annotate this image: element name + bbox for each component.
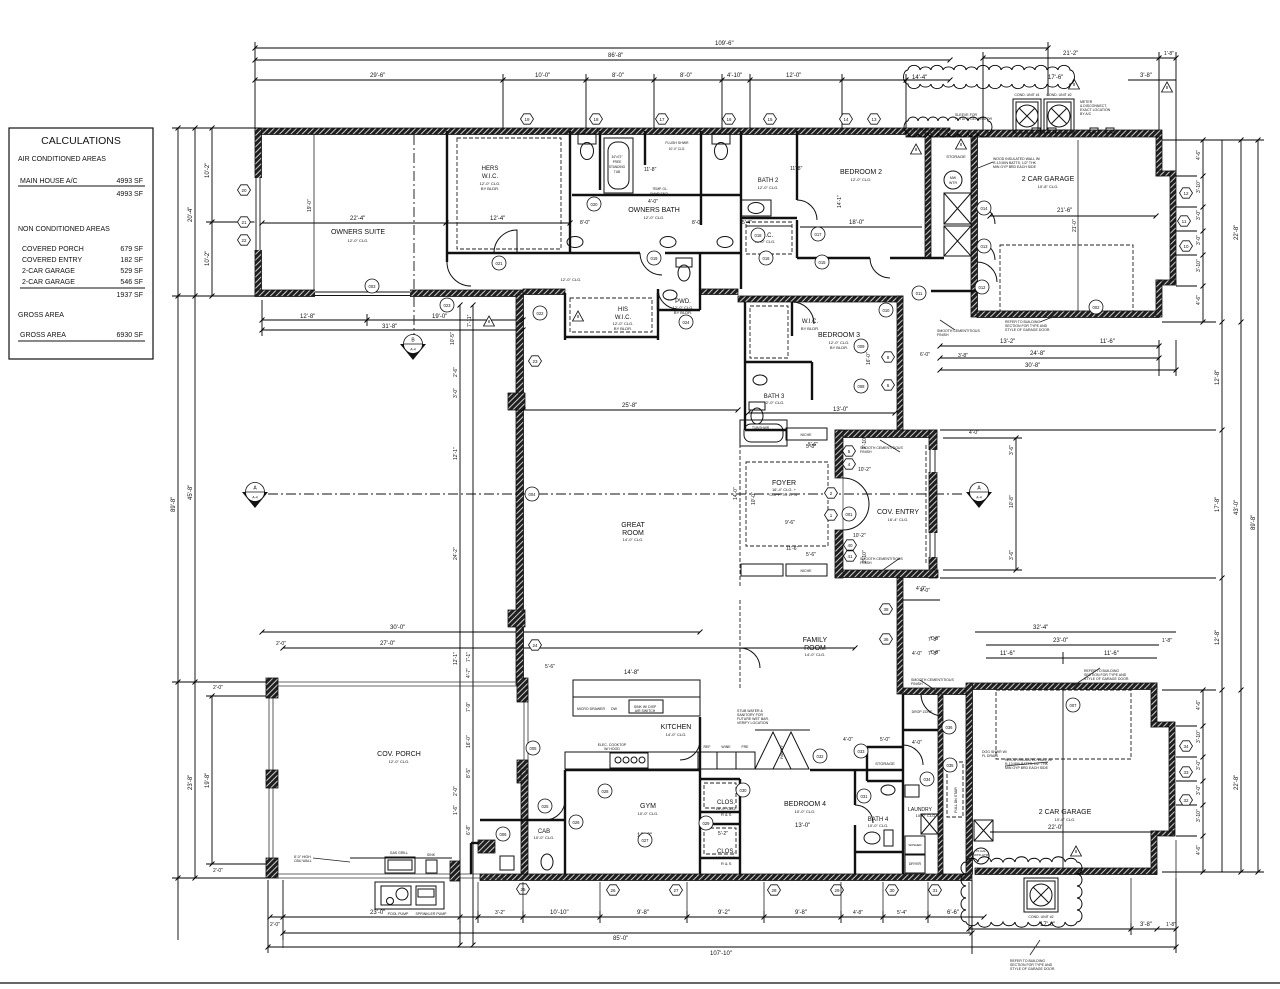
great room wall column 1	[508, 393, 525, 410]
svg-text:14'-0": 14'-0"	[733, 487, 739, 500]
pull down stair dashed	[947, 762, 963, 817]
door arcs	[447, 200, 997, 823]
svg-text:29: 29	[834, 888, 840, 893]
svg-text:22'-0": 22'-0"	[1048, 825, 1063, 831]
svg-text:13'-0": 13'-0"	[833, 407, 848, 413]
svg-text:29'-6": 29'-6"	[370, 73, 385, 79]
svg-text:22'-4": 22'-4"	[350, 216, 365, 222]
keynote hexagon 24	[529, 640, 542, 650]
svg-text:4'-6": 4'-6"	[1196, 150, 1202, 160]
svg-text:30: 30	[889, 888, 895, 893]
storage corridor south walls	[925, 257, 944, 259]
svg-text:27: 27	[673, 888, 679, 893]
svg-text:14'-0" CLG.: 14'-0" CLG.	[623, 537, 644, 542]
svg-text:026: 026	[573, 820, 581, 825]
keynote hexagon 15	[764, 114, 777, 124]
keynote hexagon 6	[882, 380, 895, 390]
left dim 10'-2" pair	[205, 128, 255, 296]
keynote hexagon 16	[723, 114, 736, 124]
svg-text:15: 15	[767, 117, 773, 122]
keynote hexagon 19	[521, 114, 534, 124]
svg-text:12'-8": 12'-8"	[1215, 370, 1221, 385]
hall south wall	[523, 289, 565, 295]
niche top	[786, 428, 827, 440]
svg-text:FLUSH SHWR: FLUSH SHWR	[665, 141, 689, 145]
centerline A-A	[268, 493, 962, 495]
svg-text:32: 32	[1183, 798, 1189, 803]
garage1 east jog bottom	[1156, 280, 1176, 285]
svg-text:2'-10": 2'-10"	[862, 436, 868, 449]
svg-text:OWNERS SUITE: OWNERS SUITE	[331, 229, 385, 236]
svg-text:34: 34	[1183, 744, 1189, 749]
svg-text:NICHE: NICHE	[801, 569, 813, 573]
svg-text:010: 010	[883, 308, 891, 313]
svg-text:12'-8": 12'-8"	[300, 314, 315, 320]
svg-text:12'-0" CLG.: 12'-0" CLG.	[644, 215, 665, 220]
north wall	[255, 128, 950, 135]
keynote hexagon 25	[517, 884, 530, 894]
left dim 19'-8" porch	[205, 685, 270, 874]
svg-text:FAMILY: FAMILY	[803, 637, 828, 644]
svg-text:10'-0" CLG.: 10'-0" CLG.	[868, 823, 889, 828]
garage1 east wall lower	[1156, 280, 1162, 317]
great room west wall	[516, 295, 524, 685]
svg-text:W.I.C.: W.I.C.	[802, 319, 819, 325]
svg-text:27'-0": 27'-0"	[380, 641, 395, 647]
door-window tag 026	[569, 815, 583, 829]
svg-text:11: 11	[1182, 219, 1187, 224]
garage2 west wall	[966, 683, 973, 874]
keynote hexagon 27	[670, 885, 683, 895]
svg-text:COVERED ENTRY: COVERED ENTRY	[22, 257, 82, 264]
svg-text:PANTRY: PANTRY	[780, 744, 784, 759]
keynote hexagon 5	[843, 446, 856, 456]
cond unit bottom	[1024, 878, 1058, 912]
svg-text:10'-0" CLG.: 10'-0" CLG.	[638, 811, 659, 816]
svg-text:BEDROOM 4: BEDROOM 4	[784, 801, 826, 808]
garage1 south wall	[977, 311, 1159, 318]
svg-text:14'-4": 14'-4"	[912, 75, 927, 81]
svg-text:107'-10": 107'-10"	[710, 951, 732, 957]
svg-text:025: 025	[542, 804, 550, 809]
door-window tag 012	[975, 280, 989, 294]
note leader lines	[313, 162, 1100, 955]
svg-text:3'-0": 3'-0"	[1196, 785, 1202, 795]
bedroom2 west wall	[796, 131, 798, 200]
svg-text:STYLE OF GARAGE DOOR.: STYLE OF GARAGE DOOR.	[1005, 328, 1050, 332]
svg-text:WTR-HTR: WTR-HTR	[974, 853, 989, 857]
gym west wall	[564, 770, 566, 874]
svg-text:BY BLDR.: BY BLDR.	[830, 345, 848, 350]
svg-text:34"x72": 34"x72"	[612, 155, 623, 159]
svg-text:SPRINKLER PUMP: SPRINKLER PUMP	[416, 912, 448, 916]
keynote hexagon 2	[825, 488, 838, 498]
garage2 north wall	[969, 683, 1157, 690]
svg-text:011: 011	[916, 291, 923, 296]
garage2 east jog top	[1151, 722, 1174, 727]
svg-text:182 SF: 182 SF	[120, 257, 143, 264]
family west dashed	[739, 600, 741, 688]
svg-text:022: 022	[537, 311, 545, 316]
svg-text:KITCHEN: KITCHEN	[661, 724, 692, 731]
svg-text:5'-0": 5'-0"	[880, 737, 890, 743]
svg-text:12'-0" CLG.: 12'-0" CLG.	[389, 759, 410, 764]
svg-text:HIS: HIS	[618, 307, 628, 313]
svg-text:A-4: A-4	[410, 348, 416, 352]
svg-text:POOL PUMP: POOL PUMP	[388, 912, 409, 916]
svg-text:529 SF: 529 SF	[120, 268, 143, 275]
svg-text:4'-6": 4'-6"	[1196, 295, 1202, 305]
keynote hexagon 23	[529, 356, 542, 366]
svg-text:STANDING: STANDING	[609, 165, 626, 169]
svg-text:31'-8": 31'-8"	[382, 324, 397, 330]
svg-text:13'-0": 13'-0"	[795, 823, 810, 829]
svg-text:027: 027	[642, 838, 650, 843]
warning triangle	[1071, 846, 1082, 856]
door-window tag 001	[842, 507, 856, 521]
svg-text:GYM: GYM	[640, 803, 656, 810]
dimension tick marks	[176, 46, 1261, 950]
west wall owners wing	[255, 128, 262, 296]
svg-text:2 CAR GARAGE: 2 CAR GARAGE	[1022, 176, 1075, 183]
svg-text:FINISH: FINISH	[860, 450, 872, 454]
bath4 toilet	[864, 785, 895, 846]
svg-text:030: 030	[740, 788, 748, 793]
svg-text:19'-0": 19'-0"	[307, 199, 313, 212]
svg-text:DROP ZONE: DROP ZONE	[912, 710, 933, 714]
svg-text:8'-5": 8'-5"	[466, 768, 472, 778]
svg-text:GROSS AREA: GROSS AREA	[18, 312, 64, 319]
family room right dims	[903, 586, 940, 656]
svg-text:31: 31	[932, 888, 938, 893]
cov entry north wall	[835, 430, 937, 438]
garage2 center line	[1062, 690, 1064, 868]
svg-text:11'-6": 11'-6"	[1000, 651, 1015, 657]
laundry east wall	[938, 694, 943, 874]
svg-text:12'-0" CLG.: 12'-0" CLG.	[758, 185, 779, 190]
svg-text:4'-10": 4'-10"	[727, 73, 742, 79]
warning triangle	[1069, 79, 1080, 89]
svg-text:24: 24	[532, 643, 538, 648]
svg-text:4'-8": 4'-8"	[853, 910, 863, 916]
svg-text:4'-0": 4'-0"	[843, 737, 853, 743]
porch column ne	[517, 678, 528, 702]
svg-text:9'-8": 9'-8"	[795, 910, 807, 916]
room labels	[294, 93, 1129, 971]
door-window tag 003	[365, 279, 379, 293]
svg-text:COFF. TO 17'-4": COFF. TO 17'-4"	[769, 492, 799, 497]
svg-text:14'-0" CLG.: 14'-0" CLG.	[805, 652, 826, 657]
svg-text:7'-1": 7'-1"	[466, 652, 472, 662]
kitchen counter row	[565, 752, 755, 769]
door-window tag 027	[638, 833, 652, 847]
mech circle	[944, 171, 962, 189]
keynote hexagon 26	[607, 885, 620, 895]
keynote hexagon 33	[1180, 767, 1193, 777]
svg-text:86'-8": 86'-8"	[608, 53, 623, 59]
garage2 east jog bottom	[1151, 831, 1174, 836]
svg-text:32'-4": 32'-4"	[1033, 625, 1048, 631]
door-window tag 017	[811, 227, 825, 241]
svg-text:22: 22	[241, 238, 247, 243]
svg-text:016: 016	[763, 256, 771, 261]
door-window tag 022	[533, 306, 547, 320]
pwd walls	[658, 253, 700, 310]
right dims 22'-8 43'-0 22'-8	[1234, 140, 1241, 872]
cov entry west wall upper	[835, 430, 843, 478]
storage room walls	[810, 747, 903, 781]
svg-text:8'-0": 8'-0"	[580, 220, 590, 226]
svg-text:7'-8": 7'-8"	[928, 637, 938, 643]
svg-text:109'-6": 109'-6"	[715, 41, 734, 47]
svg-text:1'-8": 1'-8"	[1164, 51, 1174, 57]
bottom tick extensions	[283, 840, 1176, 948]
garage1 west wall	[971, 133, 978, 317]
svg-text:STORAGE: STORAGE	[875, 761, 895, 766]
door-window tag 018	[751, 228, 765, 242]
svg-text:25'-8": 25'-8"	[622, 403, 637, 409]
keynote hexagon 13	[868, 114, 881, 124]
garage2 east wall lower	[1151, 831, 1157, 874]
keynote hexagon 22	[238, 235, 251, 245]
svg-text:5'-6": 5'-6"	[806, 552, 816, 558]
sheet border	[0, 982, 1280, 984]
svg-text:CALCULATIONS: CALCULATIONS	[41, 135, 121, 147]
family-garage2 wall	[903, 688, 972, 695]
door-window tag 002	[1089, 300, 1103, 314]
svg-text:26: 26	[610, 888, 616, 893]
foyer west dashed	[739, 444, 741, 588]
ref wine fre boxes	[698, 752, 755, 769]
revision cloud top right	[904, 65, 1075, 88]
svg-text:012: 012	[979, 285, 987, 290]
svg-text:6'-6": 6'-6"	[947, 910, 959, 916]
svg-text:10'-0": 10'-0"	[535, 73, 550, 79]
svg-text:41: 41	[847, 554, 853, 559]
svg-text:WINE: WINE	[721, 745, 731, 749]
pool pump equipment	[375, 882, 444, 909]
svg-text:3'-0": 3'-0"	[453, 388, 459, 398]
svg-text:018: 018	[755, 233, 763, 238]
svg-text:004: 004	[529, 492, 537, 497]
garage1 door dashed	[1000, 245, 1133, 311]
warning triangle	[573, 311, 584, 321]
svg-text:3'-10": 3'-10"	[1196, 259, 1202, 272]
svg-text:2-CAR GARAGE: 2-CAR GARAGE	[22, 279, 75, 286]
garage1 east outer wall	[1170, 171, 1176, 285]
niche bottom	[786, 564, 827, 576]
svg-text:WASHER: WASHER	[908, 843, 922, 847]
great room wall column 2	[508, 610, 525, 627]
door-window tag 005	[526, 741, 540, 755]
cab toilet	[500, 854, 553, 870]
svg-text:1'-8": 1'-8"	[1162, 638, 1172, 644]
door-window tag 006	[496, 827, 510, 841]
door-window tag 030	[736, 783, 750, 797]
owners suite 22'-4	[262, 134, 570, 340]
keynote hexagon 10	[1180, 241, 1193, 251]
svg-text:16'-0": 16'-0"	[466, 735, 472, 748]
svg-text:4'-7": 4'-7"	[466, 668, 472, 678]
svg-text:10'-0" CLG.: 10'-0" CLG.	[916, 813, 937, 818]
keynote hexagon 31	[929, 885, 942, 895]
porch top dims 30'-0 27'-0	[262, 625, 855, 648]
svg-text:3'-8": 3'-8"	[958, 353, 968, 359]
svg-text:19: 19	[524, 117, 530, 122]
door-window tag 031	[857, 789, 871, 803]
bath3 toilet	[749, 375, 767, 424]
svg-text:22'-8": 22'-8"	[1234, 775, 1240, 790]
svg-text:021: 021	[496, 261, 504, 266]
svg-text:035: 035	[947, 763, 955, 768]
svg-text:89'-8": 89'-8"	[1251, 515, 1257, 530]
door-window tag 024	[679, 315, 693, 329]
svg-text:ROOM: ROOM	[804, 645, 826, 652]
svg-text:33: 33	[1183, 770, 1189, 775]
svg-text:R & S: R & S	[721, 812, 732, 817]
svg-text:3'-10": 3'-10"	[1196, 180, 1202, 193]
porch column w mid	[266, 770, 278, 788]
keynote hexagon 18	[590, 114, 603, 124]
svg-text:10: 10	[1183, 244, 1189, 249]
svg-text:FOYER: FOYER	[772, 480, 796, 487]
door-window tag 014	[977, 201, 991, 215]
svg-text:8'-0": 8'-0"	[612, 73, 624, 79]
svg-text:20: 20	[241, 188, 247, 193]
svg-text:21: 21	[241, 220, 247, 225]
svg-text:MICRO DRAWER: MICRO DRAWER	[577, 707, 606, 711]
svg-text:16: 16	[726, 117, 732, 122]
window wing south wall	[315, 290, 410, 298]
svg-text:7'-9": 7'-9"	[466, 702, 472, 712]
garage2 interior dim	[990, 690, 1151, 868]
svg-text:38: 38	[883, 607, 889, 612]
svg-text:028: 028	[602, 789, 610, 794]
hall north wall	[447, 252, 640, 254]
keynote hexagon 12	[1180, 188, 1193, 198]
door-window tag 013	[977, 239, 991, 253]
svg-text:43'-0": 43'-0"	[1234, 500, 1240, 515]
wic2 north wall	[741, 217, 797, 219]
svg-text:17: 17	[659, 117, 665, 122]
svg-text:3'-8": 3'-8"	[1140, 73, 1152, 79]
svg-text:BATH 2: BATH 2	[758, 178, 779, 184]
svg-text:TUB: TUB	[614, 170, 620, 174]
warning triangle	[911, 144, 922, 154]
family room east wall	[897, 578, 903, 694]
door-window tag 020	[587, 197, 601, 211]
door-window tag 021	[492, 256, 506, 270]
svg-text:BY BLDR.: BY BLDR.	[481, 186, 499, 191]
right bottom chain dims	[1162, 690, 1203, 872]
water heater garage	[973, 820, 993, 864]
svg-text:TUB/SHWR: TUB/SHWR	[752, 426, 770, 430]
bath2 vanity	[741, 200, 771, 216]
door-window tag 016	[759, 251, 773, 265]
door-window tag 019	[647, 251, 661, 265]
bedroom2 south wall	[797, 257, 870, 259]
svg-text:30'-8": 30'-8"	[1025, 363, 1040, 369]
bedroom3 east wall	[897, 296, 903, 436]
bath3 tub	[740, 420, 787, 446]
svg-text:9'-8": 9'-8"	[637, 910, 649, 916]
revision cloud garage2	[961, 857, 1082, 927]
his wic walls	[565, 293, 658, 340]
svg-text:1'-8": 1'-8"	[1166, 922, 1176, 928]
garage1 north wall	[906, 130, 1162, 137]
owners bath south of tub wall	[572, 194, 741, 196]
door-window tag 008	[854, 379, 868, 393]
svg-text:21'-0": 21'-0"	[1072, 219, 1078, 232]
svg-text:015: 015	[819, 260, 827, 265]
porch column nw	[266, 678, 278, 698]
svg-text:19'-0": 19'-0"	[432, 314, 447, 320]
bedroom2 wic shelves	[746, 225, 792, 227]
door-window tag 036	[942, 720, 956, 734]
owners wc toilet	[578, 134, 596, 160]
svg-text:21'-6": 21'-6"	[1057, 208, 1072, 214]
svg-text:CBU WALL: CBU WALL	[294, 859, 312, 863]
gas grill	[350, 857, 452, 873]
keynote hexagon 28	[768, 885, 781, 895]
keynote hexagon 41	[844, 551, 857, 561]
keynote hexagon 32	[1180, 795, 1193, 805]
svg-text:10'-2": 10'-2"	[858, 467, 871, 473]
svg-text:11'-8": 11'-8"	[790, 166, 803, 172]
svg-text:COND. UNIT #2: COND. UNIT #2	[1046, 93, 1071, 97]
keynote hexagon 30	[886, 885, 899, 895]
svg-text:89'-8": 89'-8"	[171, 497, 177, 512]
svg-text:2'-0": 2'-0"	[270, 922, 280, 928]
svg-text:3'-6": 3'-6"	[1009, 445, 1015, 455]
svg-text:4993 SF: 4993 SF	[117, 178, 143, 185]
cov entry east dim	[943, 438, 1022, 570]
svg-text:VERIFY LOCATION: VERIFY LOCATION	[737, 721, 769, 725]
svg-text:36: 36	[883, 637, 889, 642]
svg-text:AIR CONDITIONED AREAS: AIR CONDITIONED AREAS	[18, 156, 106, 163]
svg-text:014: 014	[981, 206, 989, 211]
svg-text:017: 017	[815, 232, 823, 237]
svg-text:12'-1": 12'-1"	[453, 447, 459, 460]
svg-text:ROOM: ROOM	[622, 530, 644, 537]
svg-text:TEMP. GL.: TEMP. GL.	[652, 187, 667, 191]
svg-text:9'-2": 9'-2"	[718, 910, 730, 916]
section marker A	[242, 483, 268, 509]
svg-text:BY A/C: BY A/C	[1080, 112, 1092, 116]
garage1 east jog top	[1156, 171, 1176, 176]
svg-text:22'-8": 22'-8"	[1234, 225, 1240, 240]
svg-text:12: 12	[1183, 191, 1189, 196]
svg-text:DRYER: DRYER	[909, 862, 922, 866]
right top chain dims	[1162, 140, 1203, 322]
svg-text:2'-10": 2'-10"	[862, 550, 868, 563]
svg-text:85'-0": 85'-0"	[613, 936, 628, 942]
top dim segments row	[255, 73, 950, 128]
bottom right dims 17'-6 3'-8	[969, 878, 1176, 935]
entry inner dashed	[925, 445, 927, 565]
svg-text:5'-4": 5'-4"	[742, 220, 752, 226]
bottom dims segment row	[270, 910, 984, 928]
svg-text:DW: DW	[611, 707, 618, 711]
kitchen island	[573, 680, 700, 716]
svg-text:7'-8": 7'-8"	[928, 651, 938, 657]
cov entry south wall	[835, 570, 938, 578]
door-window tag 032	[813, 749, 827, 763]
svg-text:5'-6": 5'-6"	[808, 442, 818, 448]
svg-text:11'-6": 11'-6"	[786, 546, 799, 552]
garage1 bottom dims	[920, 339, 1176, 376]
svg-text:7'-11": 7'-11"	[467, 314, 473, 327]
